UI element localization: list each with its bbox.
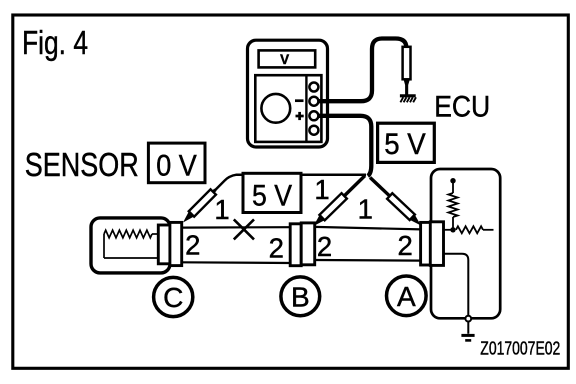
voltmeter dial xyxy=(261,94,290,123)
test probe at connector C pin 1 xyxy=(180,187,218,225)
voltmeter jacks xyxy=(309,83,318,135)
svg-text:2: 2 xyxy=(185,229,200,260)
resistor R2 (horizontal in ECU) xyxy=(456,226,494,233)
voltmeter front panel xyxy=(255,75,321,142)
ground (ECU internal) xyxy=(461,335,474,340)
voltmeter "-" terminal marking xyxy=(295,99,304,102)
wire: C-B pin 2 xyxy=(182,261,291,264)
svg-text:0 V: 0 V xyxy=(156,149,197,182)
voltmeter "+" terminal marking xyxy=(296,112,304,120)
resistor inside sensor xyxy=(104,230,159,258)
junction: case ground pass-through xyxy=(465,316,471,322)
wire: lead from probe junction to probe at C xyxy=(215,175,366,191)
svg-text:2: 2 xyxy=(269,232,284,263)
value box "5 V" near connector B lead xyxy=(243,173,301,212)
value box "0 V" at sensor xyxy=(148,143,205,183)
node: R1/R2 junction xyxy=(450,227,455,232)
svg-text:C: C xyxy=(163,282,183,313)
wire: voltmeter positive lead down to probe junction xyxy=(318,116,371,176)
value box "5 V" near ECU xyxy=(378,123,435,162)
svg-text:B: B xyxy=(291,281,310,312)
connector B xyxy=(290,223,315,266)
wire: connector A pin2 to ECU ground xyxy=(443,254,468,334)
wire: B-A pin 1 xyxy=(315,227,422,230)
wire: voltmeter negative lead xyxy=(318,39,406,102)
svg-text:Fig. 4: Fig. 4 xyxy=(22,25,88,62)
svg-text:2: 2 xyxy=(398,230,413,261)
ECU box xyxy=(431,169,500,318)
svg-text:1: 1 xyxy=(314,174,329,205)
connector designator circled B xyxy=(281,277,320,316)
wire: B-A pin 2 xyxy=(315,259,422,262)
test probe on negative lead xyxy=(403,47,411,95)
open circuit X mark on C-B pin1 wire xyxy=(234,219,254,239)
sensor body xyxy=(91,218,170,273)
svg-text:SENSOR: SENSOR xyxy=(25,146,139,183)
svg-text:1: 1 xyxy=(214,194,229,225)
svg-text:1: 1 xyxy=(358,194,373,225)
connector A xyxy=(421,222,444,266)
svg-text:5 V: 5 V xyxy=(384,128,426,161)
svg-text:Z017007E02: Z017007E02 xyxy=(480,337,560,358)
ground (chassis, at negative probe) xyxy=(400,96,416,103)
connector designator circled A xyxy=(387,276,427,316)
svg-text:ECU: ECU xyxy=(434,91,490,124)
supply terminal dot in ECU xyxy=(450,178,455,193)
connector designator circled C xyxy=(154,277,193,316)
voltmeter body xyxy=(248,40,328,147)
connector C xyxy=(158,222,181,265)
voltmeter display window with "V" xyxy=(259,50,316,67)
svg-text:5 V: 5 V xyxy=(252,179,292,212)
svg-text:V: V xyxy=(280,52,289,67)
resistor R1 (vertical pull-up in ECU) xyxy=(448,193,457,229)
svg-text:2: 2 xyxy=(317,231,332,262)
test probe at connector A pin 1 xyxy=(367,175,423,229)
test probe at connector B pin 1 xyxy=(311,173,368,229)
svg-text:A: A xyxy=(397,281,416,312)
wire: connector A pin1 to junction xyxy=(443,229,451,231)
wire: C-B pin 1 xyxy=(182,226,291,229)
